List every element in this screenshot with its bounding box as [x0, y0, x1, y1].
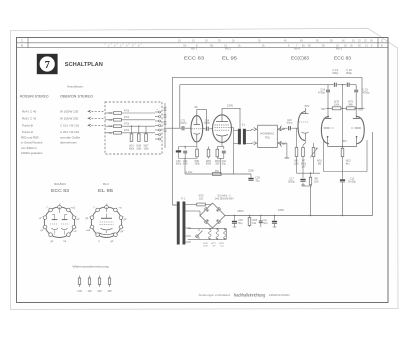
svg-text:Punkt ⊖: Punkt ⊖: [22, 130, 34, 134]
svg-text:+Z: +Z: [38, 216, 42, 220]
svg-text:4700p: 4700p: [363, 92, 371, 95]
svg-text:W35: W35: [136, 146, 141, 148]
svg-text:C 101 / W 101: C 101 / W 101: [60, 123, 80, 127]
svg-text:in Gerät Rossini: in Gerät Rossini: [21, 141, 43, 145]
svg-text:R82 und R83: R82 und R83: [21, 136, 39, 140]
svg-text:245V: 245V: [278, 208, 284, 212]
svg-text:Rö 2: Rö 2: [103, 182, 109, 186]
svg-text:60nμ: 60nμ: [287, 122, 293, 125]
svg-text:150k: 150k: [144, 148, 150, 150]
svg-text:5:1: 5:1: [242, 123, 246, 127]
svg-text:500p: 500p: [176, 163, 182, 166]
svg-text:470k: 470k: [124, 117, 130, 119]
svg-text:Rö 3: Rö 3: [336, 47, 342, 51]
svg-text:normale Größe: normale Größe: [60, 136, 81, 140]
svg-text:4W: 4W: [107, 289, 111, 293]
svg-text:Rö 2: Rö 2: [225, 47, 231, 51]
svg-text:12M: 12M: [314, 180, 319, 183]
svg-text:Rö4 | C 40: Rö4 | C 40: [22, 109, 37, 113]
svg-text:96: 96: [195, 105, 198, 109]
svg-text:C: C: [381, 39, 383, 43]
svg-text:EL 95: EL 95: [98, 188, 114, 193]
svg-text:Widerstandsbemessung: Widerstandsbemessung: [73, 265, 109, 269]
svg-text:Rö 4: Rö 4: [294, 47, 300, 51]
svg-text:12M: 12M: [294, 162, 299, 165]
svg-text:65V: 65V: [359, 107, 364, 111]
svg-text:65V: 65V: [321, 107, 326, 111]
svg-text:W 105/W 130: W 105/W 130: [60, 109, 79, 113]
svg-text:W78: W78: [219, 243, 224, 245]
svg-text:Tr 1: Tr 1: [181, 197, 186, 201]
svg-text:2W: 2W: [97, 289, 101, 293]
svg-text:+a1: +a1: [71, 205, 76, 209]
svg-text:470k: 470k: [124, 124, 130, 126]
svg-text:+C: +C: [73, 229, 77, 233]
svg-text:8k+: 8k+: [346, 162, 351, 165]
svg-text:Rö1/Rö3: Rö1/Rö3: [54, 182, 66, 186]
svg-text:600p: 600p: [346, 71, 352, 75]
svg-text:50μ: 50μ: [238, 222, 243, 225]
svg-text:8M: 8M: [318, 162, 321, 165]
svg-text:5000: 5000: [204, 122, 210, 125]
svg-text:Änderungen vorbehalten!: Änderungen vorbehalten!: [199, 293, 231, 297]
svg-text:265V: 265V: [237, 209, 243, 213]
svg-text:120/7p: 120/7p: [179, 122, 187, 125]
svg-text:7: 7: [45, 60, 50, 71]
svg-text:50μ: 50μ: [255, 179, 260, 182]
svg-text:+a2: +a2: [86, 228, 91, 232]
svg-text:WOHNRAU.: WOHNRAU.: [260, 132, 275, 136]
svg-text:470k: 470k: [124, 130, 130, 132]
svg-text:übernehmen: übernehmen: [60, 141, 77, 145]
svg-text:450k: 450k: [129, 148, 135, 150]
svg-text:60V: 60V: [342, 139, 347, 143]
svg-text:220V: 220V: [248, 169, 254, 173]
svg-text:Nachhalleinrichtung: Nachhalleinrichtung: [234, 293, 266, 298]
svg-text:5000μ: 5000μ: [288, 180, 295, 183]
svg-text:EL 95: EL 95: [222, 55, 238, 60]
svg-text:1W: 1W: [87, 289, 91, 293]
svg-text:N: N: [21, 44, 23, 48]
svg-text:EC(C)83: EC(C)83: [291, 55, 309, 60]
svg-text:ECC 83: ECC 83: [334, 55, 351, 60]
svg-text:330k: 330k: [136, 148, 142, 150]
svg-text:4700p: 4700p: [318, 92, 326, 95]
svg-text:RÖSSINI STEREO: RÖSSINI STEREO: [20, 95, 49, 99]
svg-text:2,12V: 2,12V: [186, 170, 193, 174]
svg-text:Rö 1: Rö 1: [191, 47, 197, 51]
svg-text:W77: W77: [211, 243, 216, 245]
svg-text:K: K: [381, 44, 383, 48]
svg-text:190k: 190k: [194, 163, 200, 166]
svg-text:450: 450: [215, 170, 220, 173]
svg-text:Punkt ⊕: Punkt ⊕: [22, 123, 34, 127]
svg-text:¼W: ¼W: [77, 289, 82, 293]
svg-text:100k: 100k: [334, 103, 340, 106]
svg-text:50μ: 50μ: [222, 163, 227, 166]
svg-text:W 105/W 230: W 105/W 230: [60, 116, 79, 120]
svg-text:230V: 230V: [227, 104, 233, 108]
svg-text:W57: W57: [144, 146, 149, 148]
svg-text:Rö5 | C 41: Rö5 | C 41: [22, 116, 37, 120]
svg-text:W76: W76: [203, 243, 208, 245]
svg-text:470k: 470k: [124, 110, 130, 112]
svg-text:50+50μ: 50+50μ: [348, 180, 357, 183]
svg-text:1982019-00001: 1982019-00001: [269, 293, 290, 297]
svg-text:W21: W21: [129, 146, 134, 148]
svg-text:ECC 83: ECC 83: [51, 188, 70, 193]
svg-text:2×B 300/240-50H: 2×B 300/240-50H: [215, 198, 234, 201]
svg-text:390: 390: [215, 163, 220, 166]
svg-text:C: C: [21, 39, 23, 43]
svg-text:SCHALTPLAN: SCHALTPLAN: [65, 62, 103, 68]
svg-text:C 201 / W 201: C 201 / W 201: [60, 130, 80, 134]
svg-text:50μ: 50μ: [263, 222, 268, 225]
svg-text:von 50kΩ in: von 50kΩ in: [21, 146, 37, 150]
svg-text:ECC 83: ECC 83: [184, 55, 205, 60]
svg-text:Anschlüsse:: Anschlüsse:: [67, 84, 84, 88]
svg-text:100kΩ geändert: 100kΩ geändert: [21, 151, 43, 155]
svg-text:150: 150: [199, 197, 204, 200]
svg-text:60V: 60V: [305, 104, 310, 108]
svg-text:600p: 600p: [332, 71, 338, 75]
svg-text:TEIL: TEIL: [265, 135, 271, 139]
svg-text:OBERON STEREO: OBERON STEREO: [60, 95, 93, 99]
svg-text:800k: 800k: [206, 163, 212, 166]
svg-text:10V: 10V: [301, 165, 306, 168]
svg-text:6,3V: 6,3V: [203, 246, 208, 248]
